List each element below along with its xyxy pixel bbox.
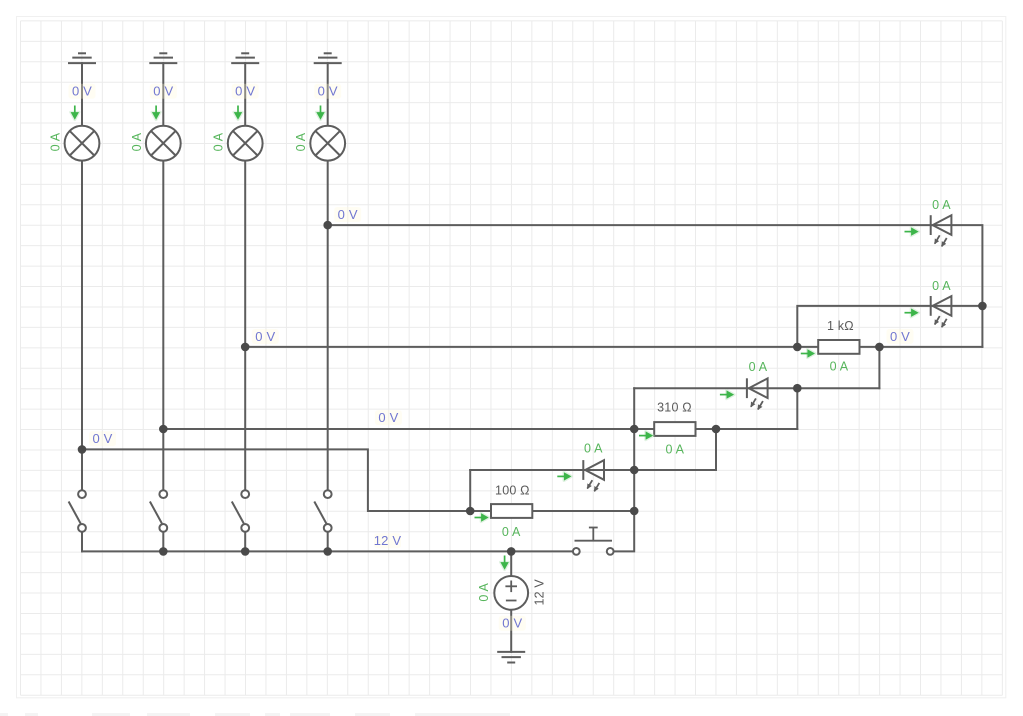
wire source bottom lead bbox=[510, 610, 512, 652]
junction 12V rail lamp3 bbox=[241, 547, 250, 556]
label lamp2 current value bbox=[130, 132, 144, 151]
current arrow D2 current bbox=[905, 309, 919, 317]
svg-text:1 kΩ: 1 kΩ bbox=[827, 319, 854, 333]
voltage source V1 12V bbox=[494, 576, 528, 610]
label lamp4 current value bbox=[294, 132, 308, 151]
wire D3 left drop bbox=[614, 388, 635, 551]
wire switch2 to 12V rail bbox=[162, 532, 164, 552]
switch S3 (open SPST) bbox=[232, 490, 249, 532]
current arrow R100 current bbox=[475, 513, 489, 521]
junction 310 right node bbox=[712, 425, 721, 434]
junction D1-D2 right node bbox=[978, 302, 987, 311]
svg-text:0 V: 0 V bbox=[255, 329, 275, 344]
current arrow lamp4 current bbox=[316, 106, 324, 120]
svg-text:0 A: 0 A bbox=[502, 525, 521, 539]
svg-text:12 V: 12 V bbox=[374, 533, 402, 548]
svg-text:0 V: 0 V bbox=[235, 84, 255, 99]
wire node A row (lamp4 to D1) bbox=[328, 225, 983, 347]
ground GND2 (above lamp 2) bbox=[149, 53, 177, 63]
svg-text:0 V: 0 V bbox=[338, 207, 358, 222]
wire switch4 to 12V rail bbox=[327, 532, 329, 552]
label R100 current value bbox=[502, 525, 521, 539]
svg-text:0 A: 0 A bbox=[212, 132, 226, 151]
svg-text:0 A: 0 A bbox=[932, 198, 951, 212]
lamp LA1 bbox=[65, 126, 100, 161]
ground GND4 (above lamp 4) bbox=[314, 53, 342, 63]
current arrow R310 current bbox=[639, 431, 653, 439]
label lamp1 current value bbox=[49, 132, 63, 151]
current arrow lamp2 current bbox=[152, 106, 160, 120]
current arrow D3 current bbox=[720, 390, 734, 398]
svg-text:0 V: 0 V bbox=[502, 616, 522, 631]
LED D4 bbox=[583, 460, 604, 491]
label node F voltage bbox=[89, 431, 116, 446]
current arrow R1k current bbox=[801, 349, 815, 357]
svg-text:0 A: 0 A bbox=[130, 132, 144, 151]
wire lamp1 column bbox=[81, 63, 83, 490]
svg-text:0 V: 0 V bbox=[890, 329, 910, 344]
label lamp3 current value bbox=[212, 132, 226, 151]
svg-text:0 V: 0 V bbox=[318, 84, 338, 99]
label D4 current value bbox=[584, 442, 603, 456]
wire 1k right to D3 row bbox=[878, 347, 880, 388]
footer text remnant (cut off at bottom edge) bbox=[0, 713, 510, 716]
wire node F row (lamp1 to R1 100) bbox=[82, 449, 634, 511]
label R310 value bbox=[657, 401, 692, 415]
junction 1k right node bbox=[875, 343, 884, 352]
label D1 current value bbox=[932, 198, 951, 212]
label lamp2 voltage bbox=[150, 84, 177, 99]
label 12V rail voltage bbox=[374, 533, 402, 548]
svg-text:0 V: 0 V bbox=[378, 410, 398, 425]
svg-text:0 A: 0 A bbox=[932, 279, 951, 293]
push button SW5 bbox=[573, 528, 614, 555]
label D2 current value bbox=[932, 279, 951, 293]
wire D4 left drop bbox=[469, 470, 471, 511]
svg-text:0 V: 0 V bbox=[92, 431, 112, 446]
svg-text:0 V: 0 V bbox=[153, 84, 173, 99]
switch S4 (open SPST) bbox=[314, 490, 331, 532]
wire lamp4 column bbox=[327, 63, 329, 490]
junction 310 left node bbox=[630, 425, 639, 434]
switch S1 (open SPST) bbox=[69, 490, 86, 532]
label source minus voltage bbox=[499, 616, 526, 631]
wire node B row (D2) bbox=[797, 306, 982, 347]
svg-text:0 A: 0 A bbox=[584, 442, 603, 456]
ground GND1 (above lamp 1) bbox=[68, 53, 96, 63]
wire 310 right to D4 row bbox=[715, 429, 717, 470]
label source current value bbox=[477, 583, 491, 602]
svg-text:0 A: 0 A bbox=[294, 132, 308, 151]
junction lamp1 node bbox=[78, 445, 87, 454]
label R1k value bbox=[827, 319, 854, 333]
svg-text:0 A: 0 A bbox=[830, 359, 849, 373]
lamp LA3 bbox=[228, 126, 263, 161]
lamp LA2 bbox=[146, 126, 181, 161]
wire 12V rail bbox=[82, 550, 573, 552]
label lamp4 voltage bbox=[314, 84, 341, 99]
wire node C row (lamp3 to R3 1k) bbox=[245, 346, 982, 348]
current arrow source current bbox=[500, 556, 508, 570]
resistor R 1kohm bbox=[818, 340, 859, 354]
label D3 current value bbox=[749, 360, 768, 374]
label R1k current value bbox=[830, 359, 849, 373]
label source value bbox=[532, 579, 546, 606]
ground GND5 (below source) bbox=[497, 652, 525, 663]
label lamp1 voltage bbox=[69, 84, 96, 99]
junction lamp3 node bbox=[241, 343, 250, 352]
wire lamp3 column bbox=[244, 63, 246, 490]
current arrow D1 current bbox=[905, 227, 919, 235]
junction lamp4 node bbox=[323, 221, 332, 230]
svg-text:12 V: 12 V bbox=[532, 579, 546, 606]
junction lamp2 node bbox=[159, 425, 168, 434]
svg-text:0 V: 0 V bbox=[72, 84, 92, 99]
svg-text:0 A: 0 A bbox=[49, 132, 63, 151]
wire node E row (lamp2 to R2 310) bbox=[163, 428, 797, 430]
junction D4 right node bbox=[630, 466, 639, 475]
label R100 value bbox=[495, 484, 530, 498]
label lamp3 voltage bbox=[232, 84, 259, 99]
svg-text:0 A: 0 A bbox=[477, 583, 491, 602]
lamp LA4 bbox=[310, 126, 345, 161]
junction 1k left node bbox=[793, 343, 802, 352]
wire source top lead bbox=[510, 551, 512, 576]
switch S2 (open SPST) bbox=[150, 490, 167, 532]
junction 12V rail lamp2 bbox=[159, 547, 168, 556]
LED D2 bbox=[931, 296, 952, 327]
junction 12V rail source tap bbox=[507, 547, 516, 556]
resistor R 310ohm bbox=[654, 422, 695, 436]
junction 100 left node bbox=[466, 507, 475, 516]
current arrow D4 current bbox=[557, 472, 571, 480]
current arrow lamp1 current bbox=[71, 106, 79, 120]
resistor R 100ohm bbox=[491, 504, 532, 518]
LED D1 bbox=[931, 215, 952, 246]
junction 100 right node bbox=[630, 507, 639, 516]
wire node D row (D3) bbox=[634, 387, 879, 389]
label node C voltage bbox=[252, 329, 279, 344]
svg-text:310 Ω: 310 Ω bbox=[657, 401, 692, 415]
svg-text:100 Ω: 100 Ω bbox=[495, 484, 530, 498]
wire switch1 to 12V rail bbox=[81, 532, 83, 552]
wire switch3 to 12V rail bbox=[244, 532, 246, 552]
junction 12V rail lamp4 bbox=[323, 547, 332, 556]
LED D3 bbox=[747, 378, 768, 409]
svg-text:0 A: 0 A bbox=[665, 442, 684, 456]
label node A voltage bbox=[334, 207, 361, 222]
current arrow lamp3 current bbox=[234, 106, 242, 120]
ground GND3 (above lamp 3) bbox=[231, 53, 259, 63]
label 1k right voltage bbox=[887, 329, 914, 344]
label R310 current value bbox=[665, 442, 684, 456]
wire node G row (D4) bbox=[470, 469, 716, 471]
junction D3 right node bbox=[793, 384, 802, 393]
svg-text:0 A: 0 A bbox=[749, 360, 768, 374]
wire D3 right drop to 310 row bbox=[796, 388, 798, 429]
label node E voltage bbox=[375, 410, 402, 425]
wire lamp2 column bbox=[162, 63, 164, 490]
